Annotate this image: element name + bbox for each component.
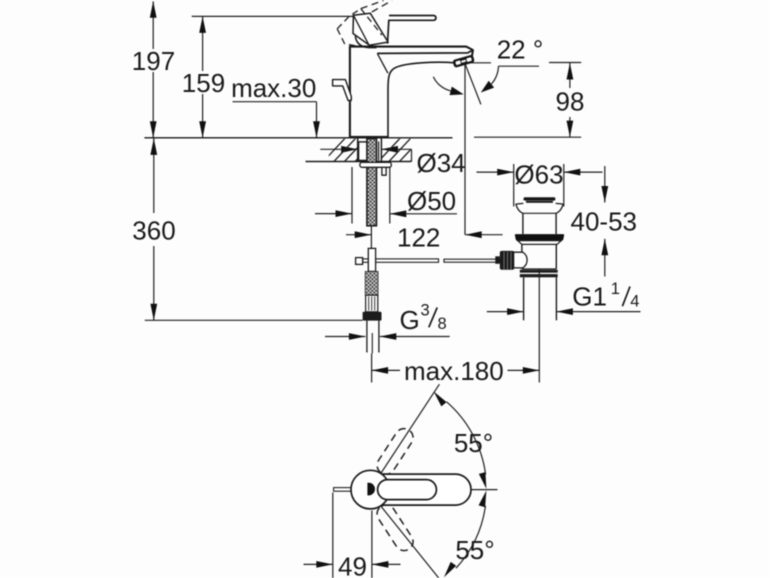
svg-text:55°: 55° (455, 535, 494, 565)
svg-text:49: 49 (338, 552, 367, 578)
svg-text:max.30: max.30 (231, 73, 316, 103)
svg-text:40-53: 40-53 (571, 207, 638, 237)
svg-text:Ø63: Ø63 (514, 160, 563, 190)
svg-text:98: 98 (556, 87, 585, 117)
svg-text:122: 122 (397, 222, 440, 252)
svg-text:3: 3 (421, 302, 430, 320)
svg-text:Ø50: Ø50 (407, 186, 456, 216)
svg-text:Ø34: Ø34 (417, 148, 466, 178)
svg-text:159: 159 (182, 68, 225, 98)
svg-text:360: 360 (132, 216, 175, 246)
svg-text:8: 8 (438, 315, 447, 333)
svg-text:4: 4 (630, 292, 639, 310)
svg-text:55°: 55° (454, 428, 493, 458)
svg-text:1: 1 (611, 280, 620, 298)
svg-text:22 °: 22 ° (497, 35, 544, 65)
svg-text:max.180: max.180 (404, 356, 504, 386)
svg-text:G1: G1 (572, 282, 607, 312)
svg-text:G: G (400, 305, 420, 335)
svg-text:197: 197 (132, 46, 175, 76)
